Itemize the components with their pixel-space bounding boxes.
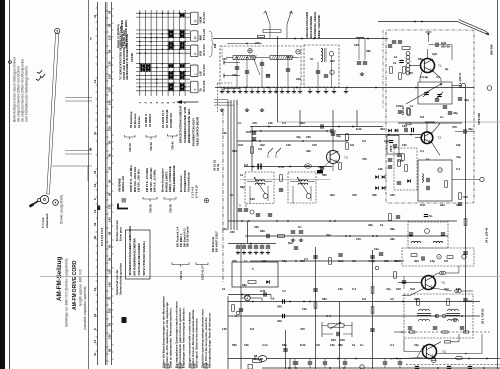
svg-text:33k: 33k xyxy=(390,237,395,241)
svg-text:10k: 10k xyxy=(330,343,335,347)
svg-text:10u: 10u xyxy=(374,247,379,251)
tuning capacitor box xyxy=(418,82,452,104)
pushbutton switch matrix grid xyxy=(136,10,190,96)
svg-text:240: 240 xyxy=(255,41,260,45)
T1 wiring xyxy=(427,49,429,58)
cord anchor eyelet xyxy=(9,61,12,64)
svg-text:4,7: 4,7 xyxy=(282,289,286,293)
fold crease lower xyxy=(40,276,500,278)
svg-text:220: 220 xyxy=(254,225,259,229)
IF transformer box 1 xyxy=(245,172,274,204)
fold crease upper xyxy=(277,121,500,123)
svg-text:26 L 725-53: 26 L 725-53 xyxy=(481,308,485,324)
ratio det internals xyxy=(438,168,442,172)
service note box xyxy=(126,230,151,279)
cord anchor bracket 5 xyxy=(172,263,189,265)
svg-text:19: 19 xyxy=(93,183,97,187)
svg-text:80: 80 xyxy=(108,114,112,118)
IF filter block xyxy=(387,136,399,155)
svg-text:OK 25-36 kanal: OK 25-36 kanal xyxy=(186,226,190,247)
svg-text:4,7u: 4,7u xyxy=(368,259,374,263)
svg-text:10k: 10k xyxy=(378,167,383,171)
dashed link line xyxy=(404,331,490,333)
ratio detector box xyxy=(418,160,452,201)
svg-text:470: 470 xyxy=(452,125,457,129)
svg-text:6,8: 6,8 xyxy=(420,115,424,119)
big IF cap xyxy=(257,164,259,170)
ratio coil dashed box xyxy=(408,222,448,248)
svg-text:90: 90 xyxy=(108,244,112,248)
osc coil xyxy=(321,48,323,62)
svg-text:729-02: 729-02 xyxy=(149,142,153,151)
svg-text:90: 90 xyxy=(108,179,112,183)
button box K xyxy=(191,45,199,57)
transistor T5 xyxy=(422,276,436,290)
svg-text:90: 90 xyxy=(108,10,112,14)
transistor T2 xyxy=(421,132,433,144)
svg-text:49: 49 xyxy=(93,170,97,174)
cord anchor bracket 4 xyxy=(143,197,157,199)
svg-text:8 8 8 8 8 8 8 8: 8 8 8 8 8 8 8 8 xyxy=(100,227,104,246)
svg-text:12: 12 xyxy=(93,79,97,83)
svg-text:T5: T5 xyxy=(441,281,445,285)
svg-text:955-09: 955-09 xyxy=(441,45,450,49)
svg-text:220: 220 xyxy=(230,230,235,234)
svg-text:70: 70 xyxy=(108,296,112,300)
svg-text:729-01: 729-01 xyxy=(128,143,132,152)
svg-text:KW 5,9...6,2 MHz: KW 5,9...6,2 MHz xyxy=(153,169,157,192)
svg-text:0,5: 0,5 xyxy=(390,297,394,301)
FM misc caps xyxy=(435,99,439,101)
svg-text:3k3: 3k3 xyxy=(414,297,419,301)
black position mark upper xyxy=(122,198,127,203)
FM terminal xyxy=(461,83,465,87)
page binding bar xyxy=(0,0,5,369)
svg-text:10k: 10k xyxy=(232,73,237,77)
svg-text:12p: 12p xyxy=(282,259,287,263)
svg-text:4,7u: 4,7u xyxy=(278,165,284,169)
svg-text:140: 140 xyxy=(108,217,112,222)
svg-text:88: 88 xyxy=(108,23,112,27)
transistor T3 xyxy=(327,151,340,164)
switch contacts xyxy=(180,13,185,18)
svg-text:WELLENBEREICHE: WELLENBEREICHE xyxy=(172,165,176,192)
svg-text:7676: 7676 xyxy=(389,145,393,152)
transistor T6 xyxy=(423,345,437,359)
svg-text:0,1: 0,1 xyxy=(420,149,424,153)
svg-text:umwickeln: umwickeln xyxy=(45,213,49,228)
cord pulley large xyxy=(40,195,48,203)
svg-text:0,1: 0,1 xyxy=(390,343,394,347)
svg-text:470: 470 xyxy=(222,57,227,61)
svg-text:5n6: 5n6 xyxy=(420,203,425,207)
svg-text:87,5-104: 87,5-104 xyxy=(202,12,206,24)
feed line xyxy=(227,43,262,45)
extra labels xyxy=(232,115,461,347)
corner mark xyxy=(118,204,128,209)
svg-text:100: 100 xyxy=(456,287,461,291)
svg-text:2k2: 2k2 xyxy=(260,143,265,147)
dial scale line 0 xyxy=(88,0,90,369)
page edge line xyxy=(9,0,11,369)
svg-text:6,8: 6,8 xyxy=(444,259,448,263)
svg-text:6 7 8 9 10: 6 7 8 9 10 xyxy=(194,185,198,198)
svg-text:1n: 1n xyxy=(426,157,430,161)
svg-text:729-04: 729-04 xyxy=(179,271,183,280)
svg-text:(variable capacitor opened): (variable capacitor opened) xyxy=(83,286,87,330)
scale pointer blob xyxy=(97,206,100,211)
svg-text:53: 53 xyxy=(108,166,112,170)
IF transformer windings xyxy=(298,180,308,182)
cord anchor bracket 2 xyxy=(146,135,156,137)
svg-text:88: 88 xyxy=(108,153,112,157)
svg-text:220: 220 xyxy=(396,287,401,291)
svg-text:220: 220 xyxy=(390,193,395,197)
svg-text:140: 140 xyxy=(108,100,112,105)
svg-text:349: 349 xyxy=(277,305,282,309)
transistor T1 xyxy=(421,59,435,73)
svg-text:0,1: 0,1 xyxy=(456,167,460,171)
svg-text:130: 130 xyxy=(108,204,112,209)
svg-text:100: 100 xyxy=(356,237,361,241)
svg-text:300: 300 xyxy=(463,195,468,199)
svg-text:6,8: 6,8 xyxy=(250,327,254,331)
svg-text:1k: 1k xyxy=(352,343,356,347)
svg-text:1k: 1k xyxy=(380,223,384,227)
AF preamp box xyxy=(232,262,278,287)
cord pulley small xyxy=(53,200,59,206)
svg-text:160: 160 xyxy=(402,124,407,128)
drive shaft knob xyxy=(32,201,38,205)
svg-text:87,5-104: 87,5-104 xyxy=(202,64,206,76)
svg-text:1n: 1n xyxy=(410,104,414,108)
matrix-to-circuit connector wires xyxy=(214,99,228,101)
svg-text:9p: 9p xyxy=(445,67,449,71)
svg-text:955-098: 955-098 xyxy=(490,44,494,55)
svg-text:610: 610 xyxy=(340,338,345,342)
svg-text:100: 100 xyxy=(108,87,112,92)
svg-text:length approx. 890 mm: length approx. 890 mm xyxy=(79,269,83,306)
LW antenna arrow xyxy=(287,11,292,24)
svg-text:3p9: 3p9 xyxy=(432,52,437,56)
bottom row capacitors xyxy=(293,362,297,364)
svg-text:2k2: 2k2 xyxy=(440,203,445,207)
svg-text:47p: 47p xyxy=(296,135,301,139)
svg-text:M: M xyxy=(194,36,198,39)
AM tank caps xyxy=(235,67,239,69)
emitter links xyxy=(410,288,425,296)
trimmer circle left xyxy=(204,198,208,202)
cord anchor bracket 1 xyxy=(125,135,136,137)
svg-text:60: 60 xyxy=(108,322,112,326)
AF input dashed box xyxy=(402,248,474,266)
svg-text:100: 100 xyxy=(456,203,461,207)
svg-text:33k: 33k xyxy=(338,343,343,347)
svg-text:520: 520 xyxy=(305,164,310,168)
svg-text:100: 100 xyxy=(108,308,112,313)
output stage dashed box top xyxy=(406,364,500,366)
button box U xyxy=(191,12,199,24)
svg-text:12p: 12p xyxy=(384,139,389,143)
svg-text:C202: C202 xyxy=(396,104,403,108)
svg-text:Stufe zu ueberpruefen. Toleran: Stufe zu ueberpruefen. Toleranzen beacht… xyxy=(168,307,172,368)
svg-text:Drehko (ausgedreht): Drehko (ausgedreht) xyxy=(60,195,64,224)
svg-text:C49: C49 xyxy=(260,289,266,293)
svg-text:470: 470 xyxy=(362,157,367,161)
svg-text:1k: 1k xyxy=(393,61,397,65)
svg-text:6,8: 6,8 xyxy=(350,143,354,147)
cord anchor bracket 5b xyxy=(164,197,176,199)
svg-text:68p: 68p xyxy=(418,57,423,61)
FM inner demod box xyxy=(394,148,417,190)
svg-text:SLIDE SWITCH REAR: SLIDE SWITCH REAR xyxy=(196,117,200,146)
svg-text:19: 19 xyxy=(93,209,97,213)
svg-text:110: 110 xyxy=(108,35,112,40)
svg-text:68p: 68p xyxy=(242,283,247,287)
electrolytic block xyxy=(317,170,323,174)
svg-text:31: 31 xyxy=(93,131,97,135)
button box M xyxy=(191,31,199,41)
FM antenna transformer xyxy=(402,47,410,50)
svg-text:68p: 68p xyxy=(240,185,245,189)
svg-text:AM-FM-Seilzug: AM-FM-Seilzug xyxy=(56,256,63,301)
svg-text:33k: 33k xyxy=(372,193,377,197)
band switch contacts xyxy=(268,148,273,153)
svg-text:1023-41.2: 1023-41.2 xyxy=(201,267,205,280)
IF caps xyxy=(405,128,407,132)
FM link caps xyxy=(357,62,361,64)
svg-text:5n: 5n xyxy=(310,57,314,61)
IF transformer windings xyxy=(255,180,265,182)
svg-text:1n: 1n xyxy=(360,343,364,347)
page right edge line xyxy=(497,0,499,369)
AM tank wires xyxy=(236,60,238,88)
pointer eyelet xyxy=(55,28,60,33)
ferrite rod aerial 2 xyxy=(270,56,292,60)
svg-text:3k3: 3k3 xyxy=(414,259,419,263)
svg-text:0,5: 0,5 xyxy=(352,259,356,263)
svg-text:AERIAL 240: AERIAL 240 xyxy=(121,176,125,192)
svg-text:1k: 1k xyxy=(240,173,244,177)
terminal square xyxy=(248,365,253,369)
svg-text:10k: 10k xyxy=(268,121,273,125)
svg-text:5n: 5n xyxy=(298,225,302,229)
svg-text:12: 12 xyxy=(247,293,251,297)
tone control resistors xyxy=(321,322,323,337)
svg-text:25: 25 xyxy=(93,313,97,317)
part oval 520 xyxy=(304,164,311,168)
svg-text:140: 140 xyxy=(108,282,112,287)
vertical bus wires xyxy=(228,36,466,369)
svg-text:130: 130 xyxy=(108,126,112,131)
tick marks xyxy=(37,70,42,73)
svg-text:GEZEICHNET IN RUHESTELLUNG: GEZEICHNET IN RUHESTELLUNG xyxy=(125,33,129,80)
svg-text:ERDE / GROUND: ERDE / GROUND xyxy=(317,15,321,38)
trimmer C2 xyxy=(296,50,300,54)
svg-text:560: 560 xyxy=(232,343,237,347)
dipole bar xyxy=(263,29,281,31)
svg-text:1n: 1n xyxy=(244,259,248,263)
FM IF wire xyxy=(398,122,462,124)
svg-text:FM: FM xyxy=(213,43,217,48)
svg-text:1k: 1k xyxy=(222,287,226,291)
svg-text:33k: 33k xyxy=(366,49,371,53)
mid dense cluster caps xyxy=(236,246,240,248)
collector link oval xyxy=(431,273,439,277)
antenna series resistor xyxy=(258,35,265,37)
svg-text:T: T xyxy=(194,89,198,91)
svg-text:88: 88 xyxy=(108,231,112,235)
svg-text:47p: 47p xyxy=(456,155,461,159)
dashed FM link xyxy=(217,83,219,112)
svg-text:560: 560 xyxy=(396,259,401,263)
svg-text:31: 31 xyxy=(93,352,97,356)
svg-text:U3 MW 510: U3 MW 510 xyxy=(169,113,173,128)
svg-text:T1: T1 xyxy=(438,64,442,68)
svg-text:WITH VTVM (NO SIGNAL): WITH VTVM (NO SIGNAL) xyxy=(142,241,146,275)
svg-text:10: 10 xyxy=(93,287,97,291)
black position mark lower xyxy=(122,317,127,323)
svg-text:2k2: 2k2 xyxy=(326,233,331,237)
svg-text:corresponding stage. Note all: corresponding stage. Note all tolerances… xyxy=(207,312,211,368)
svg-text:1k: 1k xyxy=(394,55,398,59)
svg-text:12p: 12p xyxy=(430,259,435,263)
part 88 oval xyxy=(258,356,266,362)
module boundary dash-dot xyxy=(222,112,224,282)
svg-text:41: 41 xyxy=(93,14,97,18)
direction arrow xyxy=(180,101,199,103)
svg-text:0,5: 0,5 xyxy=(362,139,366,143)
svg-text:24 L 125-49: 24 L 125-49 xyxy=(485,227,489,243)
svg-text:728-41: 728-41 xyxy=(171,141,175,150)
svg-text:5n: 5n xyxy=(429,214,433,218)
scale tick marks xyxy=(96,8,114,361)
svg-text:3k3: 3k3 xyxy=(380,127,385,131)
svg-text:6n8: 6n8 xyxy=(246,130,251,134)
MW antenna arrow xyxy=(266,11,271,24)
svg-text:2k2: 2k2 xyxy=(444,287,449,291)
svg-text:15k: 15k xyxy=(318,165,323,169)
rod feed wires xyxy=(226,57,233,59)
T6 emitter resistor xyxy=(432,358,436,362)
svg-text:1n: 1n xyxy=(440,115,444,119)
svg-text:4,7: 4,7 xyxy=(436,75,440,79)
svg-text:470: 470 xyxy=(252,121,257,125)
svg-text:470: 470 xyxy=(300,327,305,331)
series cap 1 xyxy=(283,299,285,303)
grounds mid xyxy=(291,238,295,241)
AF box internals xyxy=(411,254,417,257)
brace xyxy=(209,31,214,57)
svg-text:40p: 40p xyxy=(336,134,341,138)
svg-text:0,1: 0,1 xyxy=(468,299,472,303)
svg-text:0,1: 0,1 xyxy=(352,287,356,291)
svg-text:88: 88 xyxy=(108,348,112,352)
T5 T6 links xyxy=(433,342,442,346)
svg-text:10: 10 xyxy=(93,339,97,343)
ferrite rod aerial 1 xyxy=(233,56,255,60)
svg-text:15k: 15k xyxy=(384,259,389,263)
svg-text:8,2k: 8,2k xyxy=(338,259,344,263)
svg-text:68p: 68p xyxy=(282,343,287,347)
svg-text:87,5-104: 87,5-104 xyxy=(202,29,206,41)
svg-text:92 Koeln: 92 Koeln xyxy=(137,116,141,128)
svg-text:8,2k: 8,2k xyxy=(356,127,362,131)
svg-text:3k3: 3k3 xyxy=(300,259,305,263)
svg-text:TASTE: TASTE xyxy=(130,53,134,62)
svg-text:5n6: 5n6 xyxy=(410,287,415,291)
svg-text:120: 120 xyxy=(108,61,112,66)
svg-text:Empfaenger ohne Antennensignal: Empfaenger ohne Antennensignal betreiben… xyxy=(181,307,185,368)
svg-text:10k: 10k xyxy=(456,143,461,147)
svg-text:220: 220 xyxy=(296,77,301,81)
svg-text:5n6: 5n6 xyxy=(238,143,243,147)
svg-text:88: 88 xyxy=(254,354,258,358)
svg-text:60: 60 xyxy=(93,235,97,239)
svg-text:150: 150 xyxy=(108,74,112,79)
svg-text:zum Festhalten des Seilanfangs: zum Festhalten des Seilanfangs dienen. xyxy=(25,65,29,122)
FM input coil xyxy=(356,37,364,38)
svg-text:100: 100 xyxy=(108,269,112,274)
svg-text:90: 90 xyxy=(108,140,112,144)
demod box internals xyxy=(397,154,401,156)
svg-text:0,5-6p: 0,5-6p xyxy=(420,75,428,79)
svg-text:T3: T3 xyxy=(344,156,348,160)
svg-text:220: 220 xyxy=(250,197,255,201)
trimmer C1 xyxy=(248,49,252,53)
FM tuner box xyxy=(386,30,474,203)
svg-text:T2: T2 xyxy=(438,136,442,140)
svg-text:1n: 1n xyxy=(250,55,254,59)
svg-text:0,5: 0,5 xyxy=(316,343,320,347)
svg-text:1n: 1n xyxy=(238,121,242,125)
FM input cap xyxy=(436,43,438,47)
tuning shaft diagonal xyxy=(406,84,441,104)
svg-text:82C: 82C xyxy=(260,229,265,233)
svg-text:49: 49 xyxy=(441,271,445,275)
svg-text:810: 810 xyxy=(331,338,336,342)
svg-text:15k: 15k xyxy=(302,307,307,311)
svg-text:AM-FM DRIVE CORD: AM-FM DRIVE CORD xyxy=(72,260,78,310)
telescopic antenna xyxy=(458,22,486,34)
svg-text:96: 96 xyxy=(108,49,112,53)
dial scale line B double xyxy=(105,2,107,365)
svg-text:68p: 68p xyxy=(390,227,395,231)
svg-text:349: 349 xyxy=(277,319,282,323)
svg-text:90: 90 xyxy=(108,192,112,196)
series cap 2 xyxy=(283,314,285,318)
matrix junction dots xyxy=(139,12,186,87)
svg-text:Drive gear: Drive gear xyxy=(119,226,123,241)
svg-text:560: 560 xyxy=(322,173,327,177)
svg-text:49: 49 xyxy=(93,222,97,226)
svg-text:4,7u: 4,7u xyxy=(262,343,268,347)
svg-text:0,1: 0,1 xyxy=(282,121,286,125)
cord anchor bracket 3 xyxy=(168,134,178,136)
dial scale line C xyxy=(111,2,113,365)
svg-text:560: 560 xyxy=(232,149,237,153)
svg-text:87,5-104: 87,5-104 xyxy=(202,44,206,56)
svg-text:aerial signal. Observe the tol: aerial signal. Observe the tolerances. xyxy=(194,318,198,368)
svg-text:47p: 47p xyxy=(386,287,391,291)
svg-text:8,2: 8,2 xyxy=(362,297,366,301)
svg-text:150: 150 xyxy=(108,334,112,339)
svg-text:8,2k: 8,2k xyxy=(300,343,306,347)
svg-text:SPANNUNGSANGABEN GEMESSEN: SPANNUNGSANGABEN GEMESSEN xyxy=(128,226,132,275)
svg-text:100: 100 xyxy=(354,43,359,47)
svg-text:5n: 5n xyxy=(230,193,234,197)
svg-text:729-03: 729-03 xyxy=(149,204,153,213)
